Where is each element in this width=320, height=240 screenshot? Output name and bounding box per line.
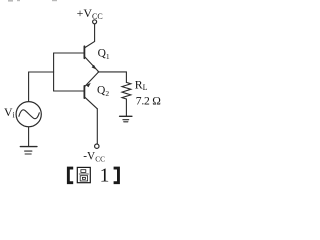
wire Q2 collector to -Vcc xyxy=(96,109,98,144)
wire common base vertical xyxy=(53,53,55,91)
+Vcc terminal xyxy=(93,20,97,24)
caption bracket right xyxy=(114,167,120,185)
caption character tu (figure) xyxy=(77,167,90,182)
svg-text:1: 1 xyxy=(100,165,110,186)
wire Q1 base xyxy=(54,52,85,54)
wire output to RL xyxy=(98,72,126,83)
wire RL to ground xyxy=(125,99,127,116)
wire Vi to ground xyxy=(28,127,30,147)
node output xyxy=(97,70,99,73)
source Vi xyxy=(16,102,41,127)
-Vcc terminal xyxy=(95,144,99,148)
resistor RL xyxy=(122,82,131,99)
ground RL xyxy=(120,116,132,122)
transistor Q1 xyxy=(84,46,98,71)
svg-text:7.2 Ω: 7.2 Ω xyxy=(136,95,161,108)
wire Q2 base xyxy=(54,90,85,92)
ground Vi xyxy=(20,147,37,154)
wire +Vcc to Q1 collector xyxy=(85,24,95,48)
caption bracket left xyxy=(67,167,73,185)
wire input from Vi xyxy=(29,72,54,101)
transistor Q2 xyxy=(84,72,98,109)
